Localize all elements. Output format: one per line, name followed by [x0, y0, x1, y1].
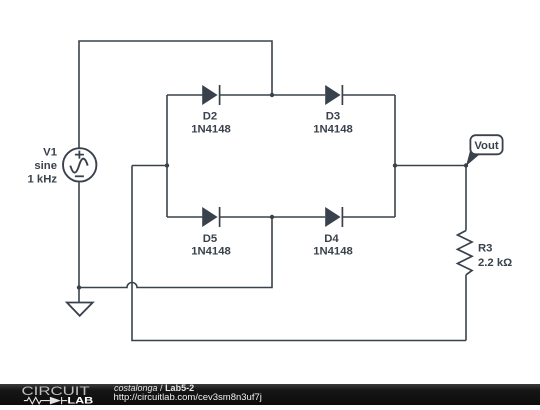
wire bottom rail D5 to center	[220, 216, 326, 218]
Vout flag box	[470, 135, 502, 154]
wire left vertical through hop down to bottom bus	[132, 166, 466, 341]
wire top rail D2 to center	[220, 94, 326, 96]
svg-text:Vout: Vout	[474, 140, 498, 152]
node junction dot top center	[270, 93, 274, 97]
V1 minus sign	[75, 175, 84, 177]
wire ground node horizontal with hop	[79, 217, 272, 288]
svg-text:1N4148: 1N4148	[313, 123, 353, 135]
wire right rail	[394, 95, 396, 217]
voltage source V1 circle	[63, 148, 96, 181]
wire left tap from bridge	[132, 165, 167, 167]
diode D3	[325, 85, 342, 105]
node junction dot bottom center	[270, 215, 274, 219]
svg-text:http://circuitlab.com/cev3sm8n: http://circuitlab.com/cev3sm8n3uf7j	[114, 392, 262, 403]
CircuitLab logo squiggle	[24, 397, 67, 404]
svg-text:D5: D5	[203, 233, 217, 245]
svg-text:D4: D4	[324, 233, 339, 245]
Vout flag pointer	[466, 149, 480, 166]
svg-text:1N4148: 1N4148	[313, 246, 353, 258]
svg-text:R3: R3	[478, 242, 492, 254]
wire V1 bottom to ground node	[78, 183, 80, 303]
svg-text:2.2 kΩ: 2.2 kΩ	[478, 257, 512, 269]
svg-text:LAB: LAB	[67, 395, 93, 405]
node Vout junction dot	[464, 163, 468, 167]
svg-text:D3: D3	[326, 111, 340, 123]
wire top rail D3 to right	[342, 94, 395, 96]
resistor R3 zigzag	[458, 231, 473, 275]
svg-text:1N4148: 1N4148	[191, 123, 231, 135]
svg-text:sine: sine	[34, 160, 57, 172]
wire bottom rail left segment	[167, 216, 203, 218]
wire resistor bottom to bus	[465, 275, 467, 341]
svg-text:D2: D2	[203, 111, 217, 123]
wire bottom rail D4 to right	[342, 216, 395, 218]
footer bar	[0, 384, 540, 405]
wire Vout tap	[395, 165, 466, 167]
svg-text:1 kHz: 1 kHz	[27, 173, 57, 185]
node junction dot left rail tap	[165, 163, 169, 167]
V1 sine squiggle	[70, 159, 87, 173]
diode D5	[202, 207, 219, 227]
wire left rail	[166, 95, 168, 217]
logo diode glyph	[50, 397, 61, 405]
svg-text:1N4148: 1N4148	[191, 246, 231, 258]
diode D4	[325, 207, 342, 227]
wire V1 top to top-rail center	[79, 41, 272, 148]
diode D2	[202, 85, 219, 105]
wire top rail left segment	[167, 94, 203, 96]
ground symbol	[67, 303, 93, 316]
V1 plus sign	[75, 151, 84, 159]
node junction dot right rail tap	[393, 163, 397, 167]
node ground junction dot	[77, 285, 81, 289]
svg-text:V1: V1	[43, 147, 57, 159]
wire Vout node down to resistor	[465, 166, 467, 231]
